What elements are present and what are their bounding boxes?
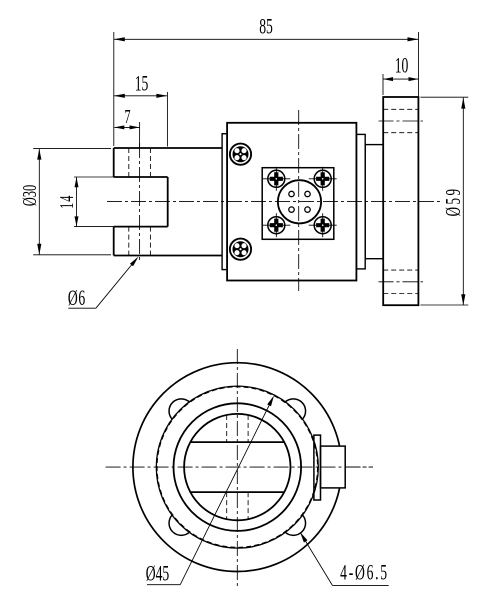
- label Ø45 leader: [146, 396, 274, 586]
- svg-text:10: 10: [395, 53, 409, 77]
- connector box: [321, 446, 346, 488]
- svg-text:4-Ø6.5: 4-Ø6.5: [340, 560, 389, 584]
- bolt hole bottom-right: [285, 515, 306, 536]
- body vertical centerline: [298, 110, 300, 291]
- bolt hole top-right: [285, 399, 306, 420]
- svg-text:Ø59: Ø59: [441, 187, 465, 217]
- connector box centerline: [321, 466, 374, 468]
- connector pins: [289, 191, 310, 212]
- plate screw top-right: [309, 167, 337, 191]
- bolt circle Ø45 dashed: [157, 387, 317, 547]
- bottom view vertical centerline: [236, 349, 238, 586]
- svg-text:85: 85: [259, 14, 273, 38]
- inner circle A: [174, 403, 302, 531]
- dimension 15: [114, 71, 168, 146]
- housing screw bottom-left: [230, 239, 251, 260]
- bolt hole top-left: [169, 399, 190, 420]
- flange Ø59: [383, 97, 418, 305]
- top view horizontal centerline: [107, 201, 441, 203]
- flange outer circle: [133, 363, 342, 572]
- shaft cylinder Ø30: [114, 148, 222, 256]
- housing screw top-left: [230, 144, 251, 165]
- connector plate: [262, 168, 334, 240]
- shaft slot 14mm: [74, 177, 168, 227]
- dimension 7: [114, 105, 139, 130]
- shaft circle Ø30: [184, 414, 290, 520]
- svg-text:Ø45: Ø45: [146, 561, 169, 585]
- dimension 14: [55, 177, 79, 226]
- plate screw bottom-right: [309, 213, 337, 237]
- connector collar: [314, 435, 321, 500]
- neck ring: [365, 145, 383, 259]
- bolt hole bottom-left: [169, 515, 190, 536]
- dimension 10: [383, 53, 419, 95]
- label 4-Ø6.5 leader: [300, 532, 389, 585]
- flange bolt holes hidden lines: [379, 109, 424, 293]
- connector circle: [278, 180, 321, 223]
- bottom view horizontal centerline: [106, 466, 373, 468]
- svg-text:14: 14: [55, 195, 78, 209]
- svg-text:Ø6: Ø6: [68, 286, 86, 310]
- label Ø6 leader: [68, 257, 139, 310]
- dimension 85: [114, 14, 419, 146]
- slot walls (chords): [190, 442, 284, 492]
- right collar ring: [356, 134, 365, 269]
- svg-text:7: 7: [124, 105, 130, 128]
- dimension Ø30: [18, 149, 111, 255]
- svg-text:15: 15: [135, 71, 149, 95]
- left collar ring: [222, 134, 227, 270]
- svg-text:Ø30: Ø30: [18, 185, 41, 206]
- dimension Ø59: [420, 97, 468, 305]
- cross hole hidden lines (end view): [227, 415, 248, 519]
- main body: [227, 123, 356, 281]
- plate screw top-left: [262, 167, 290, 191]
- boss circle: [156, 386, 318, 548]
- plate screw bottom-left: [262, 213, 290, 237]
- cross hole Ø6 hidden lines: [129, 148, 151, 256]
- cross hole centerline: [139, 122, 141, 262]
